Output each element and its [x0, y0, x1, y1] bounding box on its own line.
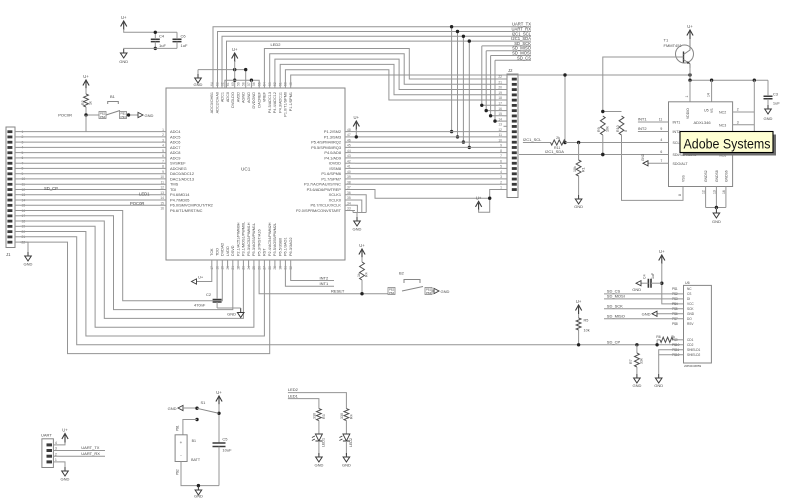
SD bus wires down to J2 pins 17-14: [482, 46, 504, 105]
ground below LED2: [343, 453, 350, 462]
svg-text:VS: VS: [710, 108, 714, 113]
wire UC1 pin 37 to J2 pin 1 via lower route: [355, 190, 490, 199]
svg-text:P4.5/ADC13: P4.5/ADC13: [268, 92, 272, 113]
ADXL right pins NC2 NC3: [733, 111, 755, 113]
svg-text:C3: C3: [773, 91, 779, 96]
svg-text:B2: B2: [399, 271, 405, 276]
J2 pins 22-1 pads, stubs and numbers: [512, 78, 517, 81]
ground symbol above UC1: [197, 70, 199, 74]
svg-text:2: 2: [737, 108, 739, 112]
svg-text:GNDS6: GNDS6: [724, 170, 728, 182]
svg-text:ADC2/CHA0: ADC2/CHA0: [215, 92, 219, 113]
svg-text:UART: UART: [41, 433, 52, 438]
svg-text:11: 11: [659, 118, 663, 122]
wire LED2 to resistor R4 column: [288, 393, 347, 409]
wires J1 pins 1-15 to UC1 left pins: [20, 131, 166, 133]
resistor R10 0: [619, 116, 624, 135]
svg-text:1: 1: [55, 458, 57, 462]
wire B2 to ground flag: [432, 290, 434, 292]
U+ arrow above R4: [359, 249, 365, 258]
svg-text:4: 4: [660, 138, 662, 142]
accelerometer U5 ADXL346 body: [669, 102, 733, 187]
VS rail right of T1: [690, 68, 768, 80]
ground below UC1 right pins: [354, 217, 361, 226]
resistor R3 330: [317, 409, 322, 421]
svg-text:R4: R4: [365, 272, 369, 277]
SD card connector U6 body: [684, 285, 712, 363]
svg-text:+: +: [180, 440, 183, 445]
svg-text:P$8: P$8: [672, 322, 678, 326]
svg-text:C6: C6: [181, 34, 187, 39]
ground below R7: [634, 374, 641, 383]
svg-text:GND: GND: [168, 406, 177, 411]
battery B1: [175, 435, 187, 462]
svg-text:NC2: NC2: [719, 111, 726, 115]
svg-text:UC1: UC1: [241, 167, 251, 172]
svg-text:ADC6: ADC6: [170, 140, 180, 145]
svg-text:RST: RST: [263, 248, 267, 256]
svg-text:DVDGND: DVDGND: [252, 92, 256, 109]
svg-text:ADC0: ADC0: [226, 92, 230, 102]
svg-text:16: 16: [722, 190, 726, 194]
svg-text:33k: 33k: [640, 358, 644, 364]
battery bottom to ground rail: [181, 462, 219, 486]
svg-text:16: 16: [160, 207, 164, 211]
svg-text:GNDS2: GNDS2: [704, 170, 708, 182]
svg-text:SD_CP: SD_CP: [607, 339, 621, 344]
R10 wire down to ADXL pin 8: [622, 135, 684, 200]
bus wires from J1 pins 16-22 wrapping below UC1: [20, 211, 222, 301]
svg-text:LED1: LED1: [139, 192, 150, 197]
svg-text:POC0R: POC0R: [58, 113, 72, 118]
svg-text:U+: U+: [687, 24, 693, 29]
U+ supply hook to J2 pin 1: [476, 201, 482, 210]
svg-text:DACREF: DACREF: [257, 91, 261, 107]
svg-text:R4: R4: [349, 414, 353, 419]
svg-text:P5.3/AC52/PWM1H: P5.3/AC52/PWM1H: [247, 222, 251, 256]
svg-text:P4.1/AD9: P4.1/AD9: [324, 155, 341, 160]
svg-text:P2.1/AC51/PWM0H: P2.1/AC51/PWM0H: [236, 222, 240, 256]
svg-text:P2.0/SPRM/CONVSTART: P2.0/SPRM/CONVSTART: [296, 208, 342, 213]
svg-text:U+: U+: [476, 195, 482, 200]
svg-text:56: 56: [252, 82, 256, 86]
svg-text:7: 7: [660, 159, 662, 163]
svg-text:POC0R: POC0R: [130, 201, 144, 206]
svg-text:P$3: P$3: [121, 115, 127, 119]
svg-text:1uF: 1uF: [773, 101, 780, 106]
svg-text:P1.1/SPM1: P1.1/SPM1: [289, 92, 293, 111]
svg-text:CD1: CD1: [687, 338, 694, 342]
capacitor C4: [151, 39, 160, 41]
ADXL pin 1 riser: [689, 80, 691, 102]
svg-text:RESET: RESET: [331, 288, 345, 293]
ground flag left of C4: [636, 281, 641, 286]
svg-text:P3.7/ACP/AUXSYNC: P3.7/ACP/AUXSYNC: [304, 182, 341, 187]
svg-text:R9: R9: [597, 127, 601, 132]
svg-text:J1: J1: [6, 252, 11, 257]
svg-text:DVDLDO: DVDLDO: [231, 92, 235, 108]
pulldown resistor R7 33k: [636, 345, 638, 353]
U+ arrow top right: [687, 30, 693, 39]
svg-text:ADC8: ADC8: [170, 150, 180, 155]
svg-text:AGND: AGND: [247, 92, 251, 103]
U+ flag feeding UC1 pin 47 row: [353, 121, 359, 130]
svg-text:2M50CM859: 2M50CM859: [684, 364, 702, 368]
svg-text:SDO/ALT: SDO/ALT: [673, 162, 689, 166]
svg-text:VCC: VCC: [687, 302, 694, 306]
capacitor C2: [216, 268, 218, 299]
ADXL left pin INT1: [638, 121, 669, 123]
svg-text:13: 13: [712, 190, 716, 194]
svg-text:2: 2: [55, 452, 57, 456]
wire INT1 from UC1 pin 31: [285, 268, 334, 286]
svg-text:R10: R10: [616, 125, 620, 132]
svg-text:U+: U+: [232, 47, 238, 52]
svg-text:1k: 1k: [89, 101, 93, 105]
svg-text:P3.5/AO55/PWM2L: P3.5/AO55/PWM2L: [273, 223, 277, 256]
svg-text:P6.6/T1/MRST/NC: P6.6/T1/MRST/NC: [170, 208, 203, 213]
svg-text:6: 6: [660, 150, 662, 154]
U+ arrow above R5: [576, 305, 582, 314]
svg-text:3: 3: [737, 121, 739, 125]
svg-text:ISSM8: ISSM8: [329, 166, 341, 171]
U+ arrow above R1: [83, 80, 89, 89]
svg-text:CD2: CD2: [687, 343, 694, 347]
svg-text:FMMT451: FMMT451: [664, 43, 683, 48]
svg-text:GND: GND: [314, 463, 323, 468]
svg-text:P$4: P$4: [672, 302, 678, 306]
SD GND flag: [657, 313, 684, 315]
svg-text:SHIELD2: SHIELD2: [687, 353, 701, 357]
svg-text:I2C1_SCL: I2C1_SCL: [523, 137, 542, 142]
svg-text:U+: U+: [216, 390, 222, 395]
wires UC1 pins 48-38 to J2 pins 12-2: [355, 131, 504, 133]
svg-text:C2: C2: [206, 292, 212, 297]
svg-text:330: 330: [340, 413, 344, 419]
svg-text:470nF: 470nF: [194, 303, 206, 308]
svg-text:NC: NC: [687, 287, 692, 291]
U+ arrow above S1: [216, 396, 222, 405]
svg-text:GND: GND: [441, 289, 450, 294]
svg-text:B1: B1: [192, 439, 196, 443]
svg-text:P$4: P$4: [389, 291, 395, 295]
U+ arrow at UART pin 4: [59, 442, 65, 445]
svg-text:59: 59: [236, 82, 240, 86]
ground flag left of S1: [178, 405, 183, 410]
svg-text:P6.0/SMVCMPOUT/TR2: P6.0/SMVCMPOUT/TR2: [170, 203, 213, 208]
wire B1 to ground flag: [127, 114, 139, 116]
ground below pull resistor: [575, 195, 582, 204]
svg-text:I2C1_SDA: I2C1_SDA: [545, 149, 564, 154]
svg-text:P4.0/AD8: P4.0/AD8: [324, 150, 341, 155]
svg-text:B1: B1: [110, 94, 116, 99]
svg-text:3: 3: [55, 447, 57, 451]
svg-text:1k: 1k: [357, 273, 361, 277]
resistor R4 330: [344, 409, 349, 421]
svg-text:GND: GND: [353, 227, 362, 232]
J1 ground wire: [20, 242, 28, 252]
wire LED1 to resistor R3 column: [288, 399, 319, 409]
svg-text:GND: GND: [712, 219, 721, 224]
svg-text:AGND: AGND: [242, 92, 246, 103]
svg-text:VDDIO: VDDIO: [686, 108, 690, 119]
svg-text:P6.3/3AO2: P6.3/3AO2: [289, 237, 293, 256]
svg-text:TMS: TMS: [170, 182, 179, 187]
ground rail above UC1 top pins: [198, 70, 246, 88]
resistor R5 10k pull-up: [578, 314, 580, 318]
svg-text:GND: GND: [227, 312, 236, 317]
svg-text:Adobe Systems: Adobe Systems: [684, 136, 771, 152]
svg-text:R5: R5: [584, 319, 589, 323]
ground rail below C2: [217, 307, 241, 309]
capacitor C6: [173, 39, 182, 41]
wire R1 to switch B1 and net POC0R: [86, 107, 99, 115]
svg-text:ADC4: ADC4: [170, 129, 181, 134]
UART ground wire: [59, 462, 65, 467]
svg-text:10k: 10k: [573, 166, 577, 172]
svg-text:1uF: 1uF: [651, 272, 655, 279]
svg-text:TCK: TCK: [210, 248, 214, 256]
svg-text:GND: GND: [194, 494, 203, 499]
UART_RX wire: [59, 455, 105, 457]
supply rail above UC1 top pins: [225, 80, 259, 88]
svg-text:DSVD: DSVD: [231, 245, 235, 256]
U+ arrow above UC1: [232, 53, 238, 62]
UART_TX wire: [59, 450, 105, 452]
svg-text:P5.4/SPM4/IRQ2: P5.4/SPM4/IRQ2: [311, 140, 341, 145]
U+ arrow top left: [121, 21, 127, 30]
svg-text:C4: C4: [159, 34, 165, 39]
svg-text:C5: C5: [222, 437, 228, 442]
svg-text:0: 0: [624, 130, 628, 132]
svg-text:14: 14: [707, 93, 711, 97]
svg-text:10k: 10k: [605, 126, 609, 132]
SD shield pins tie to ground: [659, 350, 684, 355]
svg-text:1uF: 1uF: [181, 43, 188, 48]
svg-text:P6.7/XCLK/XCLK: P6.7/XCLK/XCLK: [311, 203, 342, 208]
svg-text:P$1: P$1: [672, 287, 678, 291]
svg-text:2k: 2k: [556, 136, 560, 140]
svg-text:LED1: LED1: [288, 393, 299, 398]
ground below J1: [25, 252, 32, 261]
svg-text:UART_TX: UART_TX: [81, 445, 99, 450]
svg-text:P6.1/3AO1: P6.1/3AO1: [284, 237, 288, 256]
svg-text:DI: DI: [687, 297, 690, 301]
wires UC1 pins 36-33 to ground: [355, 195, 366, 213]
svg-text:GND: GND: [61, 477, 70, 482]
IC UC1 body: [166, 88, 345, 260]
svg-text:VREF: VREF: [263, 91, 267, 102]
ground below ADXL: [713, 209, 720, 218]
svg-text:10uF: 10uF: [222, 448, 232, 453]
svg-text:R6: R6: [656, 335, 661, 339]
svg-text:1: 1: [685, 96, 689, 98]
svg-text:P4.4/ADC12: P4.4/ADC12: [273, 92, 277, 113]
tap from supply rail down to I2C1_SCL line: [564, 75, 566, 143]
svg-text:SD_CP: SD_CP: [44, 186, 58, 191]
svg-text:1uF: 1uF: [159, 43, 166, 48]
svg-text:INT1: INT1: [638, 117, 647, 122]
svg-text:GNDS8: GNDS8: [715, 170, 719, 182]
svg-text:GND: GND: [642, 311, 651, 316]
svg-text:GND: GND: [687, 312, 695, 316]
resistor R9 10k: [600, 116, 605, 135]
svg-text:ADC1: ADC1: [221, 92, 225, 102]
svg-text:R3: R3: [322, 414, 326, 419]
svg-text:SHIELD1: SHIELD1: [687, 348, 701, 352]
LED2: [343, 434, 350, 441]
svg-text:13: 13: [498, 123, 502, 127]
svg-text:RSV: RSV: [687, 322, 694, 326]
svg-text:8: 8: [678, 194, 682, 196]
ground flag left of SDO pin: [643, 161, 648, 166]
svg-text:ADCNEG: ADCNEG: [170, 166, 187, 171]
svg-text:ADXL346: ADXL346: [693, 120, 711, 125]
LED1: [315, 434, 322, 441]
svg-text:LED1: LED1: [321, 438, 325, 447]
capacitor C4 1uF horizontal: [648, 279, 651, 288]
connector J2 body: [507, 74, 518, 198]
svg-text:P$3: P$3: [426, 291, 432, 295]
J1 pins 1-22 pads, stubs and numbers: [7, 130, 12, 133]
svg-text:C4: C4: [643, 274, 647, 279]
svg-text:57: 57: [247, 82, 251, 86]
connector UART body: [42, 439, 54, 468]
ground below LED1: [316, 453, 323, 462]
svg-text:CS: CS: [687, 292, 691, 296]
vertical pull resistor R12 on SDA net: [577, 141, 580, 144]
svg-text:GND: GND: [24, 262, 33, 267]
svg-text:GND: GND: [654, 383, 663, 388]
svg-text:AVDD: AVDD: [236, 92, 240, 103]
ADXL pin 14 riser: [711, 80, 713, 102]
svg-text:U+: U+: [198, 275, 204, 280]
svg-text:DVDAD: DVDAD: [221, 242, 225, 256]
svg-text:U+: U+: [62, 428, 68, 433]
svg-text:R1: R1: [581, 167, 585, 172]
svg-text:GND: GND: [764, 116, 773, 121]
top bus wires UART/I2C/SD nets: [213, 27, 531, 88]
svg-text:SD_MISO: SD_MISO: [607, 313, 625, 318]
ground below battery: [195, 486, 202, 495]
svg-text:P2.4/AC54/PWM2H: P2.4/AC54/PWM2H: [268, 222, 272, 256]
svg-text:P1.2/SM2: P1.2/SM2: [324, 129, 341, 134]
svg-text:P1.0/T1/SPM0: P1.0/T1/SPM0: [284, 92, 288, 117]
ground flag right of B1: [138, 112, 143, 117]
svg-text:SD_CS: SD_CS: [517, 55, 531, 60]
capacitor C3 1uF: [767, 80, 769, 95]
svg-text:INT2: INT2: [638, 126, 647, 131]
svg-text:GND: GND: [342, 463, 351, 468]
svg-text:P$1: P$1: [176, 425, 180, 431]
svg-text:T1: T1: [664, 38, 669, 43]
wire S1 to battery: [183, 420, 197, 435]
svg-text:INT1: INT1: [673, 121, 681, 125]
ground below cap bank: [120, 49, 127, 58]
svg-text:SD_MOSI: SD_MOSI: [607, 294, 625, 299]
svg-text:U+: U+: [83, 74, 89, 79]
ground below UART: [62, 467, 69, 476]
svg-text:GND: GND: [119, 59, 128, 64]
ground below SD shield: [655, 374, 662, 383]
svg-text:P$2: P$2: [176, 469, 180, 475]
svg-text:P$10: P$10: [672, 343, 680, 347]
svg-text:LVDD: LVDD: [226, 246, 230, 256]
bottom wire of cap bank to ground: [124, 47, 177, 50]
svg-text:TDO: TDO: [215, 248, 219, 256]
svg-text:S1: S1: [201, 400, 207, 405]
svg-text:XCLK1: XCLK1: [329, 192, 341, 197]
svg-text:LED2: LED2: [288, 387, 299, 392]
svg-text:U+: U+: [659, 249, 665, 254]
svg-text:INT1: INT1: [320, 281, 329, 286]
wire U+ to capacitor bank: [124, 29, 177, 32]
U+ arrow above SD section: [659, 255, 665, 264]
connector J1 body: [6, 127, 15, 248]
svg-text:LED2: LED2: [349, 438, 353, 447]
ADXL SDO/ALT pin to ground flag: [648, 162, 669, 164]
NC tie wire from VS rail: [753, 80, 755, 155]
svg-text:12: 12: [702, 190, 706, 194]
svg-text:LED2: LED2: [271, 42, 282, 47]
svg-text:R7: R7: [629, 359, 633, 364]
svg-text:U6: U6: [685, 281, 690, 285]
svg-text:INT2: INT2: [673, 130, 681, 134]
resistor R1: [85, 88, 87, 94]
svg-text:U+: U+: [121, 15, 127, 20]
svg-text:U+: U+: [576, 299, 582, 304]
svg-text:J2: J2: [508, 68, 513, 73]
svg-text:INT2: INT2: [320, 275, 329, 280]
svg-text:GND: GND: [632, 287, 641, 292]
svg-text:DAC1/ADC13: DAC1/ADC13: [170, 176, 194, 181]
ground flag right of B2: [434, 288, 439, 293]
svg-text:P1.7/SPM7: P1.7/SPM7: [321, 176, 341, 181]
supply rail from UC1 top pin 49 to transistor T1: [291, 75, 690, 88]
svg-text:P4.3/ADC11: P4.3/ADC11: [278, 92, 282, 113]
svg-text:SCL: SCL: [673, 141, 680, 145]
svg-text:P5.3/AO53/PWM1L: P5.3/AO53/PWM1L: [252, 223, 256, 256]
svg-text:P4.6/MD14: P4.6/MD14: [170, 192, 190, 197]
svg-text:GND: GND: [574, 204, 583, 209]
svg-text:SCK: SCK: [687, 307, 694, 311]
T1 base wire to resistor bar: [603, 57, 684, 112]
svg-text:330: 330: [313, 413, 317, 419]
svg-text:DO: DO: [687, 317, 692, 321]
UART pads and stubs: [47, 443, 53, 446]
ground below C3: [765, 105, 772, 114]
svg-text:BATT: BATT: [191, 458, 201, 462]
U+ flag left below UC1: [197, 268, 212, 282]
wire POC0R down to J1 pin1 row: [85, 115, 87, 132]
svg-text:GND: GND: [145, 113, 154, 118]
svg-text:VSS: VSS: [682, 174, 686, 182]
svg-text:SD_SCK: SD_SCK: [607, 303, 623, 308]
svg-text:ADC9: ADC9: [170, 155, 180, 160]
svg-text:4: 4: [55, 441, 57, 445]
svg-text:GND: GND: [194, 82, 203, 87]
ADXL left pin INT2: [638, 131, 669, 133]
svg-text:UART_RX: UART_RX: [81, 451, 100, 456]
svg-text:P$4: P$4: [100, 115, 106, 119]
svg-text:P3.1/MOS1/PWM0L: P3.1/MOS1/PWM0L: [242, 222, 246, 256]
RESET wire from UC1 RST pin to switch B2: [259, 268, 388, 294]
resistor R4 1k: [361, 257, 363, 262]
svg-text:58: 58: [242, 82, 246, 86]
svg-text:P6.5/3SB0: P6.5/3SB0: [278, 238, 282, 256]
ground below C2: [240, 308, 242, 309]
svg-text:U5: U5: [704, 109, 709, 113]
